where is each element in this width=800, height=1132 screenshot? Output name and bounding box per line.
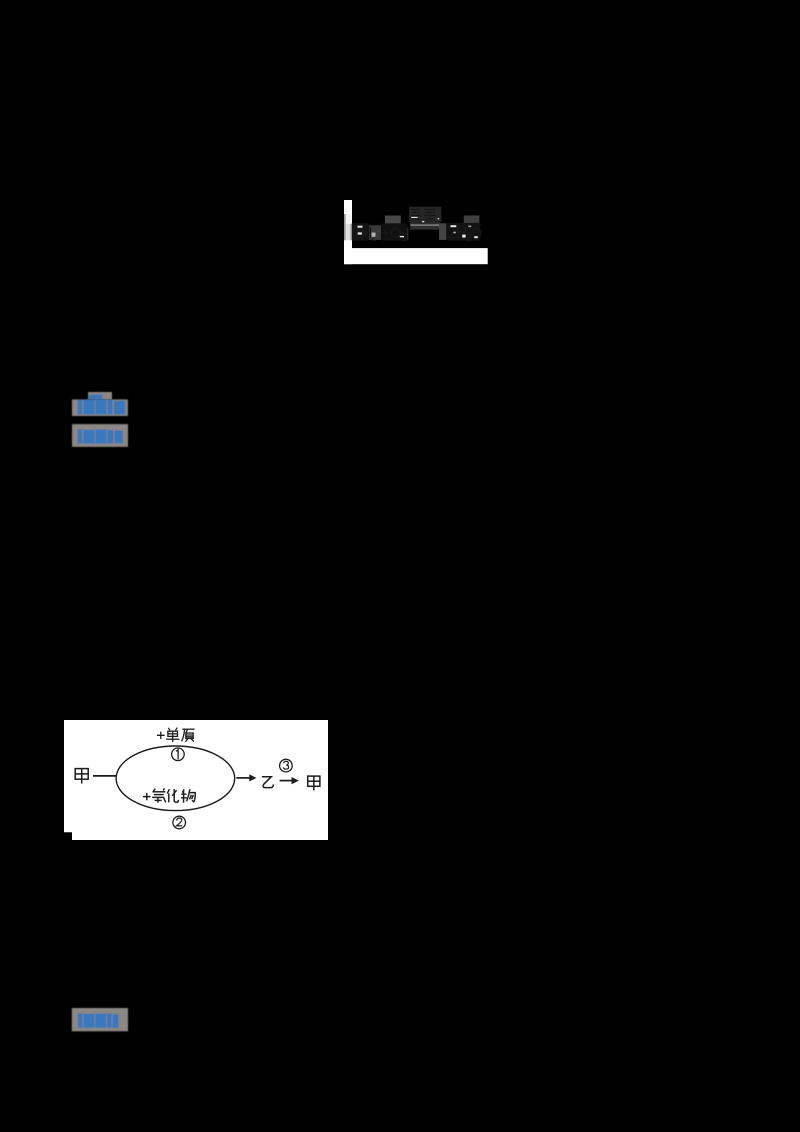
equation condition smudge (dian ran) <box>411 210 435 220</box>
highlight chip 2 (jie xi) <box>72 424 128 447</box>
svg-text:+O: +O <box>381 225 401 242</box>
equation gray JPEG blocks <box>352 207 481 241</box>
equation text 2H2 + O2 <box>352 225 408 244</box>
diagram arrow ellipse to yi <box>236 774 256 781</box>
highlight chip 3 (da an) <box>72 1008 128 1031</box>
highlight chip 1 (da an) <box>72 399 128 416</box>
equation white bottom bar <box>352 248 488 264</box>
equation text 2H2O <box>447 225 482 244</box>
equation arrow white line <box>411 225 440 230</box>
equation white speckles <box>358 217 478 238</box>
diagram arrow yi to jia <box>280 777 299 784</box>
diagram label jia (left) <box>75 769 88 784</box>
svg-text:2: 2 <box>402 232 408 244</box>
svg-text:O: O <box>471 225 483 242</box>
diagram wire from jia to ellipse <box>93 775 117 777</box>
diagram circled 1 <box>172 748 185 761</box>
diagram circled 2 <box>173 816 186 829</box>
diagram label +danzhi <box>157 728 195 742</box>
equation white strip <box>344 200 352 264</box>
diagram white box <box>64 720 328 840</box>
highlight chip 1 tab <box>88 392 112 400</box>
diagram label +yanghuawu <box>143 788 195 803</box>
diagram label yi <box>262 777 274 788</box>
diagram label jia (right) <box>308 776 320 790</box>
svg-text:2H: 2H <box>447 225 467 242</box>
diagram ellipse <box>116 746 235 811</box>
diagram circled 3 <box>280 759 293 772</box>
